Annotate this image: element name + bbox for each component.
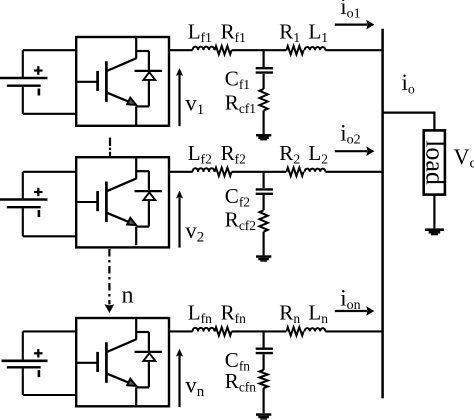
diode D1 triangle [143, 72, 155, 80]
dc source Vn long plate [2, 359, 48, 362]
plus sign battery 2 [34, 188, 42, 196]
svg-text:L2: L2 [308, 141, 328, 167]
arrow vn [178, 355, 180, 407]
svg-text:R2: R2 [279, 141, 300, 167]
inductor Lfn [193, 328, 215, 332]
inverter U1 box [76, 37, 169, 126]
wire Cf1 to Rcf1 [263, 74, 265, 89]
svg-text:Rcf2: Rcf2 [225, 208, 256, 234]
IGBT Qn gate bar [96, 352, 99, 372]
resistor Rfn [215, 327, 232, 335]
svg-text:v1: v1 [185, 91, 204, 119]
dc source Vn bottom wire [23, 394, 76, 396]
IGBT Q2 bottom connector [136, 226, 149, 228]
dc source V2 negative lead [22, 208, 24, 236]
wire node to Cfn [263, 331, 265, 347]
IGBT Qn collector lead [135, 319, 137, 340]
wire L2 to bus [325, 171, 382, 173]
wire inverter n output [169, 330, 193, 332]
diode D2 triangle [143, 192, 155, 200]
diode D2 cathode bar [135, 190, 163, 192]
dashed arrow to inverter n [108, 249, 110, 304]
inverter Un box [76, 318, 169, 406]
resistor Rf1 [215, 46, 232, 54]
resistor Rn [286, 327, 303, 335]
capacitor Cfn [256, 349, 273, 353]
resistor Rcf2 [259, 210, 267, 231]
svg-text:io1: io1 [340, 0, 360, 21]
diode D1 cathode lead [148, 51, 150, 70]
minus sign battery 2 [38, 210, 41, 217]
minus sign battery 1 [38, 89, 41, 96]
svg-text:Rf1: Rf1 [221, 20, 246, 46]
IGBT Q2 collector lead [135, 158, 137, 179]
IGBT Q2 top connector [136, 170, 149, 172]
IGBT Q1 gate bar [96, 71, 99, 91]
IGBT Q2 collector diagonal [107, 178, 137, 191]
wire inverter 2 output [169, 171, 193, 173]
IGBT Q2 emitter lead [135, 227, 137, 246]
svg-text:Cf2: Cf2 [225, 184, 250, 210]
wire to node 1 [232, 49, 287, 51]
svg-text:Lf2: Lf2 [188, 141, 212, 167]
IGBT Qn top connector [136, 331, 149, 333]
ground 1 [256, 134, 271, 137]
svg-text:ion: ion [340, 286, 360, 313]
arrow v2 [178, 197, 180, 248]
svg-text:Vc: Vc [454, 144, 474, 172]
wire inverter 1 output [169, 49, 193, 51]
svg-text:n: n [122, 283, 134, 309]
ground 2 [256, 255, 271, 257]
IGBT Q1 emitter lead [135, 106, 137, 125]
arrow io2 [335, 150, 367, 152]
wire to node 2 [232, 171, 287, 173]
resistor R2 [286, 168, 303, 176]
capacitor Cf2 [256, 189, 273, 193]
IGBT Q1 collector diagonal [107, 58, 137, 71]
IGBT Q2 gate lead [76, 201, 99, 203]
wire Rcf1 to ground [263, 111, 265, 135]
svg-text:io: io [402, 70, 415, 97]
wire Ln to bus [325, 330, 382, 332]
IGBT Q1 collector lead [135, 38, 137, 59]
inductor L1 [305, 47, 326, 50]
wire bus to load [383, 113, 435, 130]
diode D2 anode lead [148, 200, 150, 227]
IGBT Qn body bar [105, 342, 108, 383]
plus sign battery n [34, 349, 42, 357]
dc source Vn short plate [7, 366, 41, 368]
svg-text:Ln: Ln [308, 301, 328, 327]
dc source V1 positive lead [22, 50, 24, 77]
svg-text:v2: v2 [185, 218, 204, 246]
dc source Vn negative lead [22, 368, 24, 395]
IGBT Q1 body bar [105, 61, 108, 102]
IGBT Qn bottom connector [136, 386, 149, 388]
svg-text:load: load [420, 140, 449, 185]
wire to node n [232, 330, 287, 332]
IGBT Q2 gate bar [96, 191, 99, 211]
dc source V1 negative lead [22, 87, 24, 114]
IGBT Q1 gate lead [76, 81, 99, 83]
dash-dot link between inverter 1 and 2 [109, 138, 111, 157]
dc source V1 bottom wire [23, 113, 76, 115]
IGBT Qn collector diagonal [107, 339, 137, 352]
inductor L2 [305, 169, 326, 172]
IGBT Q1 top connector [136, 50, 149, 52]
resistor Rcfn [259, 370, 267, 388]
inverter U2 box [76, 157, 169, 247]
inductor Ln [305, 328, 326, 331]
IGBT Qn emitter lead [135, 387, 137, 406]
svg-text:Rfn: Rfn [221, 301, 247, 327]
IGBT Q1 emitter diagonal [107, 93, 130, 103]
wire load to ground [433, 195, 435, 229]
dc source V2 bottom wire [23, 235, 76, 237]
wire Rcfn to ground [263, 388, 265, 413]
svg-text:Cf1: Cf1 [225, 67, 250, 93]
dc source V2 positive lead [22, 172, 24, 199]
diode D1 cathode bar [135, 70, 163, 72]
dc source V2 long plate [0, 198, 48, 201]
wire Rcf2 to ground [263, 232, 265, 256]
svg-text:Rcf1: Rcf1 [225, 91, 256, 117]
wire node to Cf1 [263, 50, 265, 67]
wire Cf2 to Rcf2 [263, 195, 265, 210]
resistor Rcf1 [259, 89, 267, 111]
ground n [256, 413, 271, 416]
dc source V1 short plate [7, 84, 41, 86]
bus wire [381, 29, 384, 399]
dc source V1 long plate [0, 77, 48, 80]
diode D2 cathode lead [148, 171, 150, 190]
wire L1 to bus [325, 49, 382, 51]
resistor Rf2 [215, 168, 232, 176]
IGBT Q2 body bar [105, 182, 108, 223]
svg-text:R1: R1 [279, 20, 300, 46]
svg-text:io2: io2 [340, 120, 360, 147]
wire node to Cf2 [263, 172, 265, 188]
diode Dn cathode lead [148, 332, 150, 351]
arrow ion [335, 310, 367, 312]
dc source Vn positive lead [22, 331, 24, 359]
wire Cfn to Rcfn [263, 354, 265, 370]
svg-text:L1: L1 [308, 20, 328, 46]
IGBT Qn emitter diagonal [107, 374, 130, 384]
dc source Vn top wire [23, 330, 76, 332]
minus sign battery n [38, 370, 41, 377]
dc source V2 top wire [23, 171, 76, 173]
arrow v1 [178, 74, 180, 126]
IGBT Qn emitter arrowhead [127, 379, 136, 386]
dc source V2 short plate [7, 206, 41, 208]
plus sign battery 1 [34, 66, 42, 74]
capacitor Cf1 [256, 68, 273, 72]
dc source V1 top wire [23, 49, 76, 51]
IGBT Q2 emitter diagonal [107, 213, 130, 223]
inductor Lf2 [193, 168, 215, 172]
svg-text:vn: vn [185, 373, 205, 401]
diode Dn triangle [143, 353, 155, 361]
IGBT Q1 emitter arrowhead [127, 98, 136, 105]
svg-text:Lfn: Lfn [188, 301, 212, 327]
ground load [425, 228, 444, 231]
svg-text:Rf2: Rf2 [221, 141, 246, 167]
IGBT Q2 emitter arrowhead [127, 218, 136, 225]
diode Dn cathode bar [135, 351, 163, 353]
svg-text:Lf1: Lf1 [188, 20, 212, 46]
diode D1 anode lead [148, 80, 150, 107]
arrow io1 [335, 24, 367, 26]
IGBT Q1 bottom connector [136, 105, 149, 107]
resistor R1 [286, 46, 303, 54]
IGBT Qn gate lead [76, 362, 99, 364]
svg-text:Rn: Rn [279, 301, 300, 327]
load box [424, 130, 445, 194]
inductor Lf1 [193, 47, 215, 51]
diode Dn anode lead [148, 361, 150, 388]
